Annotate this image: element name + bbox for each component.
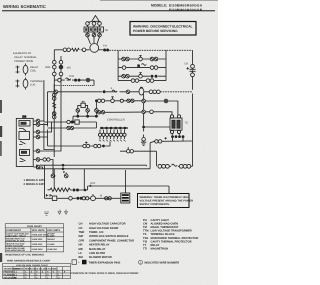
door switch 2	[19, 132, 30, 145]
terminal pair left of FM	[82, 48, 86, 52]
ladder row3 junction pair	[151, 75, 158, 78]
timer note icons	[72, 260, 120, 265]
left legend relay symbol 2	[16, 78, 28, 90]
top faint rule	[100, 0, 218, 2]
interlock switch square	[75, 120, 79, 124]
terminal pair y149 b	[94, 144, 101, 147]
power transformer box PT	[170, 118, 182, 130]
terminal pair on rail L1	[63, 48, 70, 52]
ladder row2 relay coil label	[138, 64, 147, 68]
terminal block TB pins top	[86, 22, 102, 27]
controller connector dots	[101, 127, 127, 130]
transformer feed bus x143.6	[143, 94, 145, 132]
rail y80 coil squiggle	[66, 78, 71, 80]
long rail y165.2	[40, 164, 146, 167]
ladder row1 terminal pair	[122, 57, 130, 61]
vertical bus x150.1	[149, 143, 151, 169]
wire y101 to PT	[145, 101, 178, 115]
PT pins bottom contacts	[170, 130, 180, 134]
polarity mark y138.5	[165, 137, 167, 139]
bus B terminal circles	[59, 60, 63, 75]
junction dot x96.4 y100.8	[95, 99, 98, 102]
warning box: disconnect power	[130, 22, 196, 36]
ground symbol	[141, 142, 146, 145]
row y112.3 wire	[97, 111, 142, 113]
bottom row contact circle	[69, 197, 73, 201]
bus x143.6 contact y111.8	[142, 110, 146, 114]
mid feed stub x96.4	[95, 101, 97, 107]
wire controller feed y148	[48, 142, 111, 147]
door switch terminal column	[36, 119, 40, 169]
wire y141	[150, 141, 192, 143]
rail y92.6 terminal pair right	[149, 90, 160, 94]
left mid vertical buses	[44, 80, 54, 157]
fuse zigzag on bus x55	[53, 103, 56, 109]
heater wire right	[79, 186, 88, 190]
fan motor FM	[90, 44, 99, 53]
stirrer motor M	[91, 194, 96, 201]
small labels on schematic	[45, 29, 188, 198]
abbreviation list left column	[79, 223, 135, 260]
mid switch bridge cluster	[72, 101, 99, 124]
capacitor polarity label	[187, 67, 189, 69]
numbered terminal mark	[63, 171, 68, 178]
title underline rule	[2, 10, 215, 11]
abbreviation list right column	[143, 219, 198, 251]
warning box: high voltage	[138, 194, 194, 208]
heater terminal pair	[73, 189, 80, 192]
rail y92.6 contact circle	[54, 90, 58, 94]
PT bottom stubs	[172, 134, 183, 141]
junction dot heater wire	[84, 189, 87, 192]
bridge junction dots	[72, 115, 98, 124]
row y112.3 terminal pair	[97, 111, 104, 114]
vertical bus x156.5	[156, 151, 158, 166]
row y100.8 lamp	[111, 97, 115, 103]
controller pin row	[98, 130, 126, 142]
left edge scan artifact 2	[0, 126, 2, 137]
left legend text block	[13, 52, 44, 87]
rail y80 wire	[54, 79, 94, 81]
rail junction dots x63	[62, 164, 65, 170]
terminal pair on bus x54.2 lower	[52, 112, 56, 119]
wire y151 right segment	[120, 150, 157, 152]
rail y92.6 long wire	[48, 91, 150, 93]
ladder row3 contact	[139, 73, 143, 78]
ladder row 2 y67.6 wire	[118, 67, 166, 69]
bridge relay square	[81, 103, 85, 107]
NC contact marks left	[46, 194, 52, 197]
door pair right of column	[43, 158, 55, 178]
bridge contact circles	[76, 109, 80, 113]
rail y80 junction pair	[74, 79, 80, 82]
junction dot y149	[102, 145, 105, 148]
right bus x192.5	[192, 50, 194, 150]
interlock wire y128	[48, 122, 97, 128]
rail y92.6 contact	[126, 90, 130, 94]
wire y127 to PT	[145, 126, 170, 128]
bridge leads	[78, 105, 97, 114]
vertical wire x54.2 lower	[53, 169, 55, 190]
wire number 1 squiggle	[111, 86, 118, 92]
door switch wires to buses	[33, 118, 61, 169]
wire rail L1 left of fan motor	[54, 49, 89, 51]
bus x143.6 contact y101	[142, 99, 146, 103]
bottom row y198.3 wire	[45, 165, 105, 198]
numbered wire marks above fuse chart	[44, 210, 68, 216]
left vertical bus B (x61)	[60, 56, 62, 118]
bus x143.6 junction dot y127	[142, 126, 145, 129]
terminal pair on bus x54.2	[52, 93, 56, 100]
ladder row2 contact	[122, 66, 126, 70]
PT pins top	[170, 115, 180, 118]
wires from TB to fan motor	[88, 37, 100, 44]
fuse chart table	[5, 224, 63, 252]
ladder row 3 y76.2 wire	[118, 75, 166, 77]
left edge scan artifact 3	[0, 141, 2, 156]
wire y111.8 to PT	[145, 112, 172, 115]
ladder row 1 y59 wire	[118, 58, 166, 60]
bottom rail y186	[88, 186, 169, 193]
rail y80 contact circle	[86, 78, 90, 82]
ground stub	[143, 134, 145, 137]
ladder row2 terminal pair	[150, 66, 158, 70]
thermal cutout TCO oval	[139, 87, 144, 95]
ground terminal	[142, 138, 146, 142]
ladder row1 switch contact	[139, 56, 143, 61]
magnetron filament line	[147, 150, 193, 168]
door switch 3	[20, 150, 30, 162]
interlock pair y128	[67, 126, 74, 129]
ladder row1 terminal pair right	[150, 57, 158, 61]
interlock pair y122	[67, 120, 74, 123]
bottom row terminal pair	[82, 197, 89, 200]
lamp terminal pair right	[105, 197, 121, 200]
contact x166 y101	[164, 99, 168, 103]
ladder vertical bus x166	[165, 50, 167, 80]
row y100.8 wire	[96, 100, 141, 102]
ladder bottom rail pair a	[131, 79, 139, 83]
door switch assembly box	[16, 118, 33, 166]
vertical wire x84.3 lower	[83, 169, 85, 190]
contact x151.5 y111.8	[150, 110, 154, 114]
terminal block TB pins bottom	[86, 32, 102, 37]
controller connector top bus	[100, 127, 128, 129]
long rail y168.8	[37, 165, 150, 169]
terminal pair y150	[127, 147, 134, 153]
rail y80 thermostat contact	[58, 78, 62, 82]
row y100.8 terminal pair 2	[127, 99, 134, 102]
polarity mark y146.5	[85, 142, 87, 144]
wire chart table	[3, 263, 71, 278]
ladder bottom rail pair b	[146, 79, 154, 83]
wire to connector block	[104, 170, 126, 198]
bottom row junction pair	[76, 197, 82, 200]
left edge scan artifact 4	[0, 253, 2, 262]
heater element HTR zigzag	[48, 188, 73, 192]
bottom row switch rect	[52, 196, 57, 201]
connector block dark	[121, 193, 130, 203]
row y100.8 contact	[120, 99, 123, 102]
left vertical bus A (x54.3)	[53, 50, 55, 118]
HV capacitor CH on right bus	[190, 63, 196, 76]
rail y92.6 junction dot	[103, 90, 106, 93]
wire number note	[139, 260, 180, 264]
wire from FM right to bus	[98, 49, 103, 51]
bus A terminal circles	[53, 60, 57, 75]
antenna symbol top	[88, 16, 101, 23]
terminal block TB	[84, 27, 104, 32]
junction pair right of FM	[103, 49, 109, 52]
row y100.8 terminal pair	[98, 99, 105, 102]
door switch 1	[19, 121, 30, 132]
ladder row3 terminal pair	[122, 74, 130, 78]
left legend relay symbol 1	[16, 64, 28, 76]
fuse F on rail L1	[72, 48, 80, 51]
interlock wire y122	[44, 121, 97, 123]
left edge scan artifact 1	[0, 100, 2, 113]
PT pins bottom junction dots	[171, 135, 184, 138]
ladder vertical bus x118	[117, 50, 119, 80]
bridge bottom wire y116.2	[73, 116, 98, 122]
polarity mark heater	[89, 185, 91, 187]
terminal pair y149 a	[83, 144, 90, 147]
ladder bottom rail y80.6	[118, 80, 166, 82]
dashed sub-rail y85.6	[54, 85, 94, 87]
rail y80 drop to dashed rail	[93, 80, 95, 86]
terminal pair y141	[155, 140, 162, 143]
